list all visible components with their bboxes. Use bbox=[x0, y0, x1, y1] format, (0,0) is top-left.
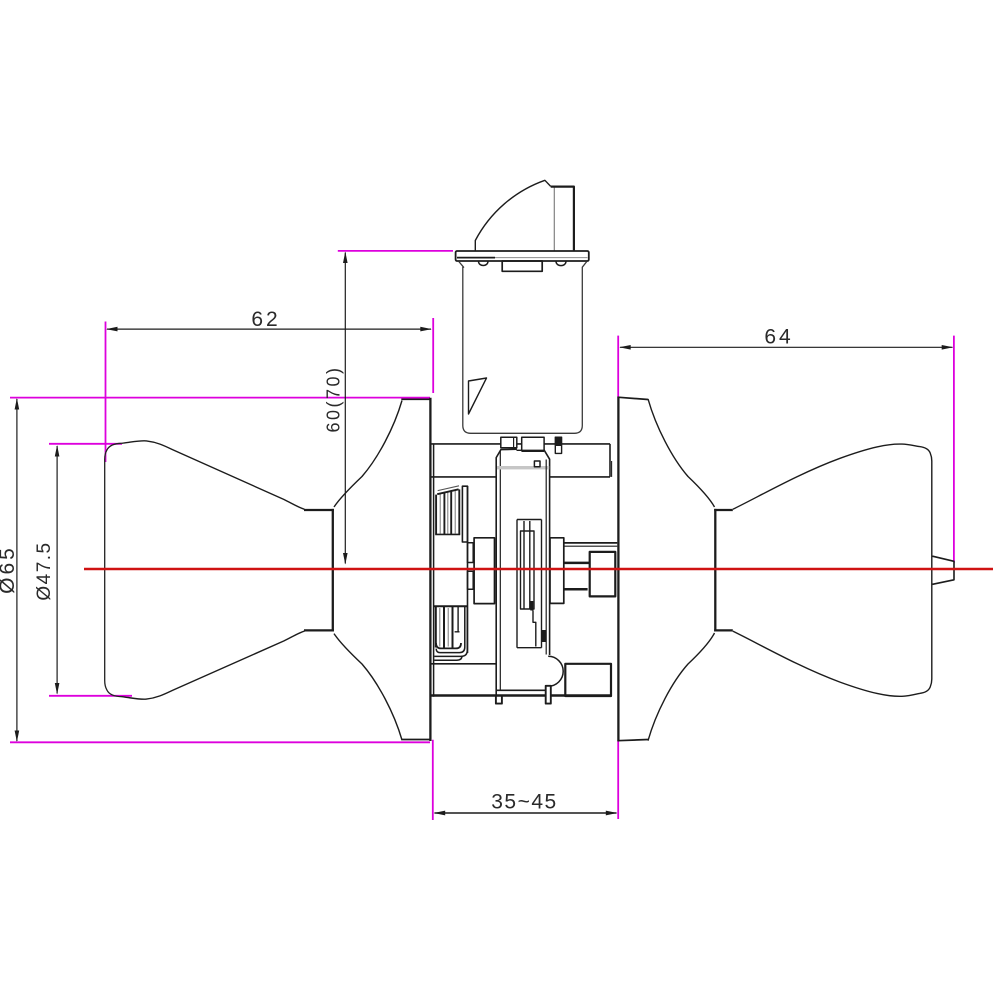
left hub step bbox=[468, 486, 474, 653]
magenta extension line: diameter 47.5 top bbox=[49, 443, 122, 445]
svg-text:60(70): 60(70) bbox=[324, 365, 344, 432]
right knob cylinder tail bbox=[933, 556, 955, 584]
right rose bottom edge bbox=[618, 740, 649, 741]
left knob flare bottom bbox=[334, 634, 402, 740]
cylinder pin dark head bbox=[555, 437, 561, 446]
chassis bottom plate bbox=[431, 664, 611, 696]
cylinder center notch rect bbox=[502, 261, 542, 271]
cylinder tailpiece tab 2 bottom edge bbox=[522, 450, 544, 452]
latch bolt block bbox=[590, 552, 616, 597]
right rose face edge bbox=[617, 397, 619, 742]
left knob flare top bbox=[334, 401, 402, 508]
right knob face outline bbox=[920, 447, 932, 694]
cylinder body bbox=[459, 262, 587, 434]
cylinder tailpiece tab 1 bbox=[501, 437, 517, 448]
cylinder key disc right edge bbox=[553, 187, 555, 251]
latch tube rectangle bbox=[565, 664, 611, 696]
left knob neck step top bbox=[304, 509, 334, 511]
svg-text:35~45: 35~45 bbox=[491, 791, 557, 814]
svg-text:64: 64 bbox=[764, 326, 793, 349]
dimension 64 line bbox=[620, 346, 953, 348]
dimension diameter 47.5 line bbox=[56, 446, 58, 694]
top spring pack bbox=[435, 486, 467, 542]
case foot left bbox=[496, 696, 502, 704]
cylinder tailpiece tab 2 bbox=[522, 437, 544, 451]
right knob flare top bbox=[648, 399, 715, 507]
cylinder triangle marker bbox=[469, 378, 487, 414]
cylinder flange bbox=[456, 251, 589, 261]
svg-text:62: 62 bbox=[251, 308, 280, 331]
magenta extension line: dim 62 right (rose edge) bbox=[432, 318, 434, 393]
magenta extension line: diameter 65 top bbox=[10, 397, 430, 399]
right rose top edge bbox=[618, 397, 649, 399]
left knob top profile bbox=[122, 441, 305, 510]
right knob neck bbox=[714, 509, 716, 632]
latch case body bbox=[496, 449, 517, 695]
left knob neck bbox=[332, 509, 334, 632]
latch case inner shoulder band bbox=[497, 466, 549, 469]
left knob bottom profile bbox=[122, 631, 305, 699]
cylinder mount bump left bbox=[479, 262, 489, 266]
latch case body right side bbox=[522, 449, 550, 655]
cylinder pin bbox=[555, 437, 561, 453]
left hub bbox=[474, 538, 494, 604]
red centerline bbox=[84, 568, 993, 570]
magenta extension line: diameter 47.5 bottom bbox=[49, 695, 132, 697]
magenta extension line: dim 64 left / rose face bbox=[617, 336, 619, 397]
latch case small detail rect bbox=[534, 461, 540, 467]
latch spindle top line bbox=[564, 562, 590, 565]
left knob face outline bbox=[105, 443, 122, 696]
right hub bbox=[550, 538, 564, 604]
latch tube top lines bbox=[564, 542, 618, 544]
cylinder key quarter-disc bbox=[475, 180, 550, 251]
cylinder flange inner line bbox=[457, 257, 495, 259]
dimension 62 line bbox=[107, 328, 431, 330]
magenta extension line: dim 62 left (knob face) bbox=[105, 322, 107, 463]
dimension 60(70) line bbox=[344, 253, 346, 564]
magenta extension line: diameter 65 bottom bbox=[10, 741, 430, 743]
right knob flare bottom bbox=[648, 633, 715, 741]
chassis top plate bbox=[431, 444, 612, 477]
magenta extension line: dim 60(70) top bbox=[338, 250, 453, 252]
cylinder flange inner line light part bbox=[495, 257, 588, 259]
left rose bottom edge bbox=[401, 739, 431, 741]
right knob bottom profile bbox=[733, 631, 920, 696]
bottom spring pack bbox=[434, 606, 468, 660]
cylinder key bow bbox=[551, 187, 574, 251]
latch case neck top edge segment bbox=[517, 449, 523, 451]
dimension 35~45 line bbox=[435, 812, 617, 814]
chassis left edge bbox=[433, 444, 435, 697]
cylinder mount bump right bbox=[556, 262, 566, 266]
latch case bottom edge bbox=[496, 689, 546, 691]
left rose face edge bbox=[429, 398, 431, 741]
magenta extension line: dim 64 right (knob tail) bbox=[953, 336, 955, 563]
spindle sleeve inside case bbox=[517, 460, 546, 655]
case foot right bbox=[546, 686, 551, 704]
latch case inner wall left bbox=[499, 451, 501, 691]
latch case right edge lower bbox=[549, 686, 551, 690]
right knob neck step bottom bbox=[714, 629, 733, 631]
right knob top profile bbox=[733, 444, 920, 509]
latch case body fill bbox=[496, 449, 549, 690]
svg-text:Ø65: Ø65 bbox=[0, 545, 19, 594]
right knob neck step top bbox=[714, 509, 733, 511]
left knob neck step bottom bbox=[304, 629, 334, 631]
magenta extension line: dim 35~45 left bbox=[432, 740, 434, 820]
cylinder tailpiece tab 1 inner line bbox=[513, 437, 515, 448]
semicircular latch spring bump bbox=[548, 656, 563, 686]
latch spindle bottom line bbox=[564, 588, 588, 591]
magenta extension line: dim 35~45 right bbox=[617, 741, 619, 820]
svg-text:Ø47.5: Ø47.5 bbox=[34, 541, 55, 600]
dimension diameter 65 line bbox=[16, 399, 18, 741]
left rose top edge bbox=[401, 398, 431, 400]
